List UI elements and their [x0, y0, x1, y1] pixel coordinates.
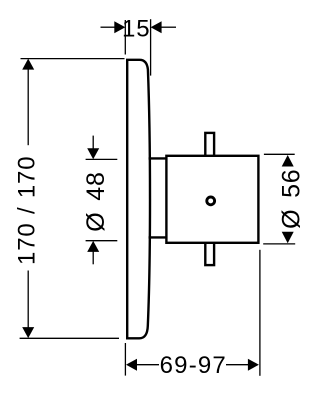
- mixer body box: [166, 156, 258, 243]
- dim Ø48: bottom arrow: [87, 241, 99, 252]
- dim Ø56: bottom extension line: [263, 243, 295, 245]
- svg-text:Ø 56: Ø 56: [278, 168, 306, 228]
- dim 15: right leader line: [161, 26, 176, 28]
- dim 170/170: dimension line upper segment: [27, 66, 29, 145]
- dim 69-97: right extension line: [259, 250, 261, 376]
- dim 15: left arrow: [114, 21, 125, 33]
- svg-text:69-97: 69-97: [160, 352, 227, 379]
- dim 69-97: right dimension line segment: [226, 364, 249, 366]
- dim 15: right arrow: [151, 21, 162, 33]
- dim 15: right extension line: [150, 19, 152, 75]
- dim 69-97: left arrow: [126, 359, 137, 371]
- dim Ø48: bottom extension line: [86, 240, 118, 242]
- dim 69-97: left dimension line segment: [136, 364, 159, 366]
- dim Ø48: top extension line: [86, 158, 118, 160]
- dim Ø48: top leader line: [92, 136, 94, 149]
- dim 69-97: left extension line: [124, 343, 126, 376]
- svg-text:170 / 170: 170 / 170: [13, 156, 40, 265]
- bottom mounting tab: [205, 242, 214, 265]
- dim 69-97: right arrow: [248, 359, 259, 371]
- dim Ø56: top extension line: [264, 153, 295, 155]
- dim Ø56: top arrow: [282, 155, 294, 167]
- dim 170/170: top extension line: [21, 58, 125, 60]
- dim 170/170: bottom arrow: [22, 327, 34, 338]
- dim 170/170: dimension line lower segment: [27, 271, 29, 333]
- collar bottom line: [149, 236, 168, 238]
- dim Ø56: bottom arrow: [282, 232, 294, 244]
- dim 15: left leader line: [101, 26, 116, 28]
- top mounting tab: [205, 133, 214, 157]
- svg-text:Ø 48: Ø 48: [82, 171, 110, 231]
- dim 15: left extension line: [124, 20, 126, 55]
- dim 170/170: bottom extension line: [20, 337, 119, 339]
- dim Ø48: bottom leader line: [92, 252, 94, 265]
- dim Ø48: top arrow: [87, 148, 99, 159]
- dim 170/170: top arrow: [22, 59, 34, 70]
- escutcheon flange (side profile): [127, 60, 150, 339]
- collar top line: [149, 157, 168, 159]
- center screw circle: [207, 197, 215, 205]
- svg-text:15: 15: [122, 16, 150, 43]
